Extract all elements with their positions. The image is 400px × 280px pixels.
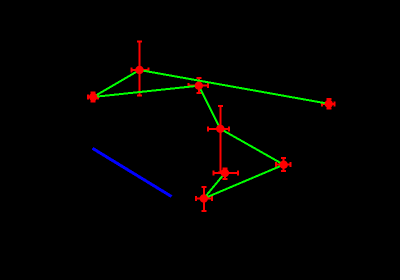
error bars point F bbox=[276, 158, 291, 171]
data point G bbox=[221, 169, 229, 177]
data point E bbox=[216, 125, 224, 133]
data point B bbox=[135, 66, 143, 74]
data point D bbox=[325, 100, 333, 108]
data point F bbox=[280, 161, 288, 169]
error bars point C bbox=[189, 78, 209, 93]
blue line bbox=[93, 148, 172, 196]
data point C bbox=[195, 82, 203, 90]
data point A bbox=[89, 93, 97, 101]
error bars point G bbox=[214, 168, 238, 179]
data point H bbox=[200, 194, 208, 202]
green polyline D-B-A-C-E-F-H-G bbox=[93, 70, 329, 199]
error bars point A bbox=[88, 93, 98, 102]
error bars point E bbox=[208, 106, 229, 173]
error bars point B bbox=[132, 41, 149, 95]
error bars point D bbox=[322, 99, 335, 109]
error bars point H bbox=[196, 187, 212, 211]
